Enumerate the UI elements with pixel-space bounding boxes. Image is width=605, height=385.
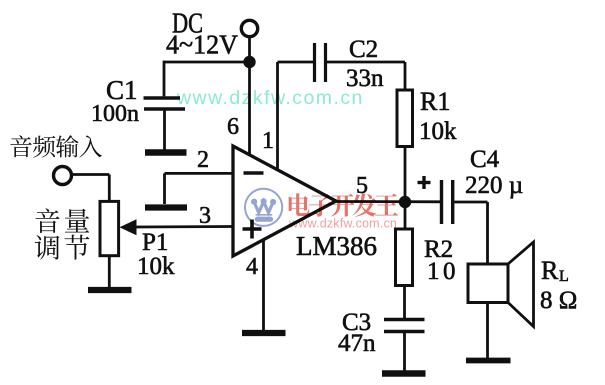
resistor R1 10k: [397, 87, 457, 147]
wire: C3 to ground: [403, 332, 406, 372]
svg-text:C2: C2: [349, 36, 378, 63]
svg-text:R1: R1: [420, 87, 450, 116]
wire: op-amp pin 5 output to C4: [335, 200, 441, 203]
wire: R1 bottom to output node: [404, 147, 407, 203]
potentiometer P1 10k: [100, 201, 175, 280]
capacitor C2 33n: [315, 36, 385, 92]
svg-text:8 Ω: 8 Ω: [540, 287, 577, 314]
capacitor C4 220u (polarity +): [418, 146, 524, 224]
wire: output node down to R2: [404, 202, 407, 230]
wire: P1 wiper to op-amp pin 3: [134, 225, 233, 228]
svg-text:4~12V: 4~12V: [166, 30, 238, 60]
wire: op-amp pin 1 up to C2: [278, 62, 314, 170]
wire: op-amp pin 2 to ground: [165, 173, 234, 204]
wire: supply node down to op-amp pin 6: [248, 62, 251, 156]
pin 4 label: [246, 254, 258, 280]
node: output junction pin5/R1/R2/C4: [399, 196, 411, 208]
pin 2 label: [197, 147, 209, 173]
svg-text:www.dzkfw.com.cn: www.dzkfw.com.cn: [176, 87, 364, 109]
svg-text:www.dzkfw.com.cn: www.dzkfw.com.cn: [288, 217, 397, 231]
wire: C2 to R1 top: [327, 62, 406, 91]
svg-text:10k: 10k: [137, 253, 175, 280]
svg-text:3: 3: [199, 203, 211, 229]
svg-text:10: 10: [427, 258, 459, 285]
node: supply junction: [243, 56, 255, 68]
capacitor C3 47n: [338, 309, 425, 357]
wire: speaker to ground: [486, 303, 489, 359]
svg-text:L: L: [559, 268, 569, 285]
svg-text:6: 6: [227, 114, 239, 140]
resistor R2 10: [396, 229, 460, 286]
wire: input terminal to P1 top: [71, 175, 109, 203]
ground: pin 4: [242, 330, 286, 336]
wire: P1 bottom to ground: [108, 256, 111, 287]
terminal: DC supply input: [241, 20, 257, 36]
svg-text:220 µ: 220 µ: [465, 172, 523, 199]
wire: DC terminal down to supply node: [248, 37, 251, 62]
ground: pin 2: [145, 204, 187, 210]
wire: C4 to speaker: [454, 202, 487, 265]
svg-text:1: 1: [262, 128, 274, 154]
pin 5 label: [356, 173, 368, 199]
svg-text:P1: P1: [142, 229, 168, 256]
capacitor C1 100n: [91, 61, 185, 150]
speaker RL 8 ohm: [468, 242, 577, 327]
ground: below C3: [382, 370, 426, 377]
terminal: audio input: [54, 167, 72, 185]
wire: supply node left to C1: [163, 61, 250, 64]
label: volume adjust (CJK): [35, 208, 90, 259]
ground: below C1: [145, 149, 187, 155]
svg-text:10k: 10k: [419, 118, 457, 145]
svg-text:LM386: LM386: [296, 231, 377, 261]
svg-text:100n: 100n: [91, 101, 139, 127]
svg-text:C4: C4: [470, 146, 500, 173]
svg-text:2: 2: [197, 147, 209, 173]
svg-text:47n: 47n: [338, 330, 376, 357]
pin 3 label: [199, 203, 211, 229]
label: audio input (CJK): [10, 135, 102, 157]
ground: below P1: [88, 287, 132, 293]
pin 6 label: [227, 114, 239, 140]
op-amp U1 LM386: [233, 146, 377, 261]
ground: speaker: [466, 358, 511, 364]
label DC 4~12V: [166, 9, 238, 60]
svg-text:R: R: [541, 256, 559, 285]
wire: op-amp pin 4 to ground: [262, 241, 265, 331]
pin 1 label: [262, 128, 274, 154]
svg-text:4: 4: [246, 254, 258, 280]
wire: R2 bottom to C3: [403, 286, 406, 321]
